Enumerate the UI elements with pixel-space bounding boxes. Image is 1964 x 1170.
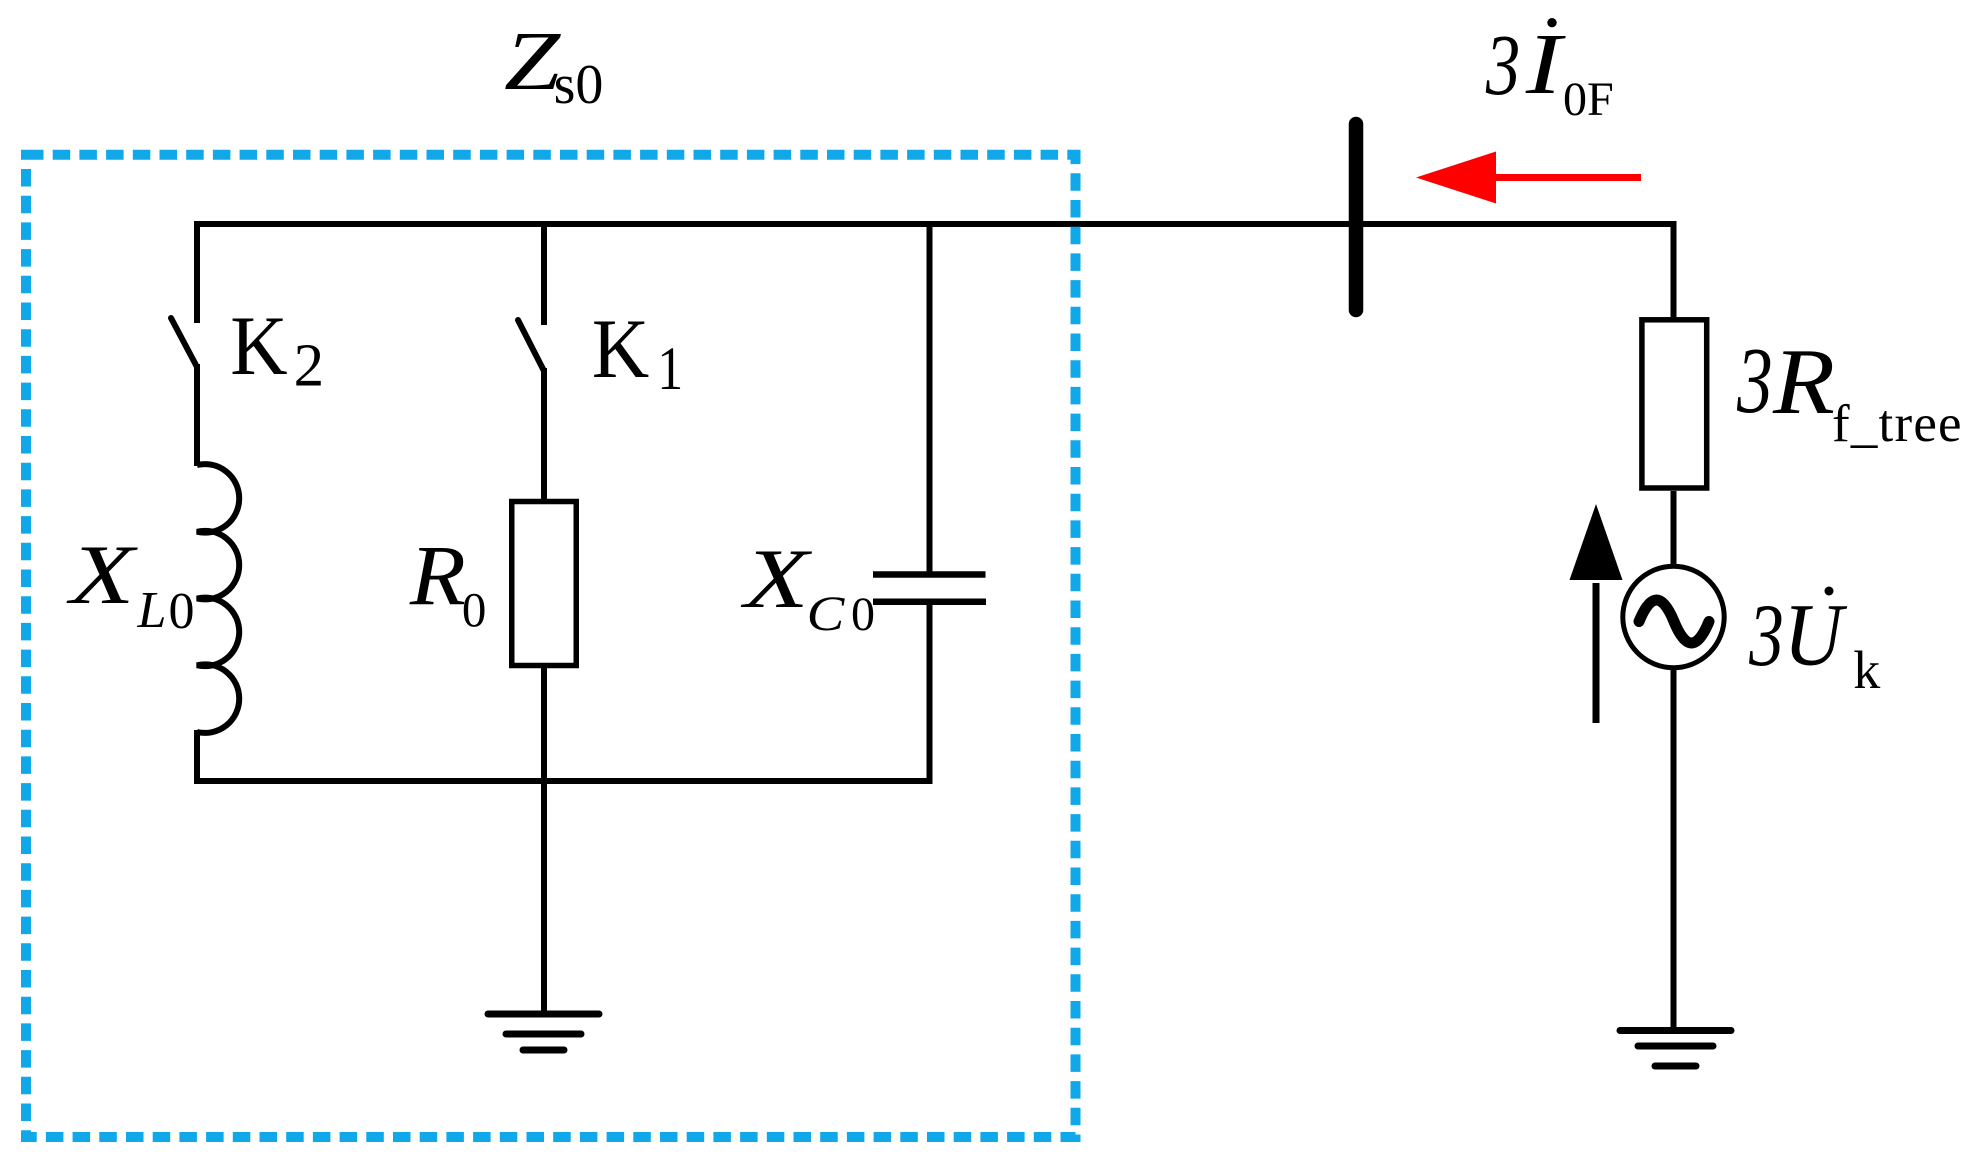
switch K2 blade: [171, 318, 197, 367]
black up arrow voltage direction: [1570, 504, 1623, 723]
sine wave inside source: [1639, 600, 1709, 643]
wire R0 to ground: [541, 668, 547, 1013]
svg-text:K: K: [230, 299, 287, 393]
ground left: [488, 1014, 599, 1050]
svg-text:0: 0: [462, 582, 487, 637]
svg-text:0: 0: [169, 583, 195, 640]
resistor 3Rf_tree body: [1642, 320, 1707, 488]
svg-text:U: U: [1784, 586, 1848, 684]
wire top bus from box to right branch: [194, 221, 1674, 227]
wire right branch down from bus: [1671, 221, 1677, 319]
svg-text:3: 3: [1748, 587, 1784, 685]
svg-text:2: 2: [294, 333, 325, 400]
wire source to ground: [1671, 666, 1677, 1029]
svg-text:3: 3: [1485, 16, 1520, 113]
svg-text:R: R: [409, 528, 466, 623]
svg-text:s0: s0: [554, 54, 604, 116]
svg-text:1: 1: [657, 336, 683, 403]
wire K2 branch top stub: [194, 221, 200, 323]
bus bar: [1349, 124, 1364, 310]
capacitor XC0 plates: [873, 571, 986, 578]
svg-text:C: C: [807, 585, 846, 641]
svg-text:L: L: [137, 582, 167, 639]
svg-text:R: R: [1772, 330, 1835, 434]
dashed box Zs0: [26, 155, 1076, 1137]
wire K1 to resistor: [541, 368, 547, 502]
wire inductor bottom: [194, 730, 200, 784]
svg-text:X: X: [66, 528, 139, 622]
svg-text:f_tree: f_tree: [1832, 395, 1963, 453]
AC source circle 3Uk: [1623, 566, 1724, 667]
wire K2 to inductor: [194, 364, 200, 466]
resistor R0 body: [512, 502, 577, 666]
svg-text:k: k: [1853, 640, 1880, 700]
svg-text:0F: 0F: [1563, 73, 1614, 126]
wire bottom rail: [194, 778, 933, 784]
svg-text:I: I: [1525, 16, 1567, 112]
svg-text:X: X: [740, 532, 813, 626]
wire resistor to source: [1671, 491, 1677, 568]
wire XC0 branch bottom: [927, 605, 933, 784]
inductor XL0: [197, 464, 239, 733]
ground right: [1620, 1031, 1731, 1067]
red arrow 3I0F current direction: [1416, 152, 1641, 204]
svg-text:0: 0: [851, 588, 875, 641]
svg-text:K: K: [592, 302, 649, 396]
wire XC0 branch top: [927, 221, 933, 572]
wire K1 branch top stub: [541, 221, 547, 325]
svg-text:3: 3: [1736, 330, 1773, 434]
switch K1 blade: [518, 320, 544, 371]
